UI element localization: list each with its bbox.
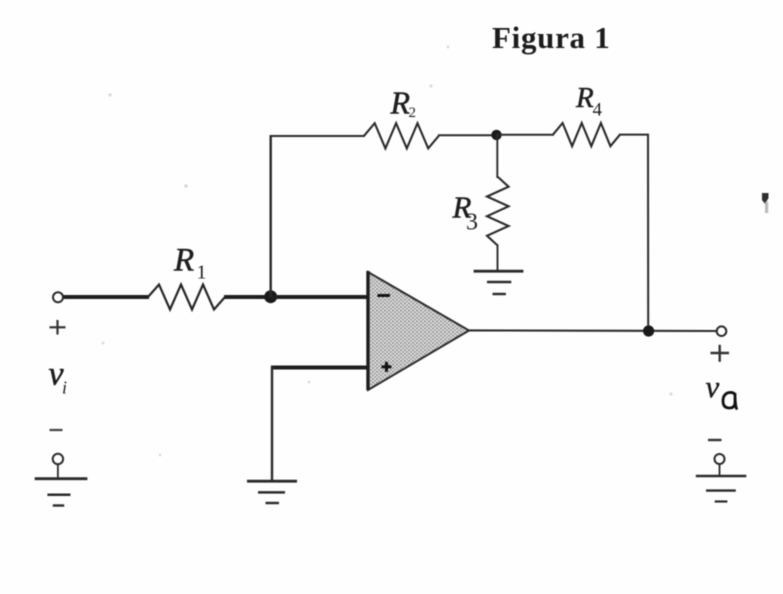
wire node A up to feedback loop	[270, 135, 272, 297]
op-amp U1	[368, 271, 469, 390]
stem to left ground	[57, 464, 59, 479]
ground left	[35, 479, 88, 506]
resistor R2	[364, 123, 439, 148]
svg-text:3: 3	[466, 210, 478, 236]
svg-text:1: 1	[197, 262, 207, 284]
label R1	[173, 243, 207, 284]
output lower terminal circle	[715, 454, 725, 464]
stray mark right edge	[762, 193, 769, 213]
wire top left to R2	[270, 135, 366, 137]
wire input to R1	[63, 295, 150, 299]
input lower terminal circle	[53, 454, 63, 464]
wire node B down to R3	[496, 135, 498, 178]
ground right	[696, 476, 747, 502]
resistor R1	[148, 285, 225, 310]
svg-text:2: 2	[409, 105, 417, 121]
plus sign (input)	[50, 320, 66, 335]
label R4	[575, 82, 603, 121]
svg-text:v: v	[706, 369, 720, 404]
stem to right ground	[719, 464, 721, 476]
node C (output junction dot)	[643, 325, 654, 336]
label vi	[49, 356, 68, 398]
ground under R3	[474, 271, 524, 294]
wire down to middle ground	[271, 367, 273, 482]
wire op-amp output	[469, 329, 717, 332]
wire node A to op-amp inverting input	[270, 295, 369, 299]
wire R2 to node B	[438, 134, 497, 136]
input terminal circle	[53, 292, 63, 302]
svg-text:4: 4	[593, 100, 603, 121]
minus sign (input)	[50, 429, 63, 431]
output terminal circle	[717, 326, 727, 336]
label R2	[390, 85, 417, 122]
op-amp plus sign	[382, 362, 392, 372]
svg-text:Figura 1: Figura 1	[492, 20, 610, 55]
wire R1 to node A	[224, 295, 272, 299]
minus sign (output)	[708, 439, 722, 441]
resistor R3 (vertical)	[487, 177, 509, 246]
svg-text:R: R	[390, 85, 411, 121]
svg-text:R: R	[173, 243, 194, 279]
label R3	[452, 190, 479, 236]
label vo	[706, 369, 737, 409]
wire R4 to right corner and down to output node	[619, 135, 648, 331]
resistor R4	[553, 123, 620, 146]
wire non-inverting input	[271, 366, 369, 370]
node B (junction dot)	[491, 130, 501, 140]
op-amp minus sign	[378, 294, 391, 297]
ground middle	[247, 481, 297, 503]
plus sign (output)	[711, 345, 730, 362]
svg-text:R: R	[575, 82, 594, 114]
svg-text:i: i	[62, 378, 67, 398]
node A (junction dot)	[264, 290, 277, 303]
wire R3 to ground	[497, 245, 499, 272]
wire node B to R4	[496, 134, 554, 136]
